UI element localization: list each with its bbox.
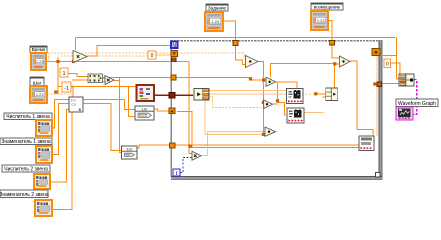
svg-text:1.23: 1.23 (317, 18, 325, 23)
svg-text:1.23: 1.23 (211, 19, 219, 24)
svg-text:Co: Co (71, 103, 76, 107)
svg-text:возмущение: возмущение (314, 5, 341, 10)
svg-text:1.23: 1.23 (36, 92, 44, 97)
svg-text:N: N (172, 43, 176, 49)
svg-text:x: x (79, 107, 82, 112)
svg-text:0: 0 (151, 53, 154, 59)
svg-text:Знаменатель 1 звена: Знаменатель 1 звена (1, 139, 51, 145)
svg-text:Знаменатель 2 звена: Знаменатель 2 звена (0, 192, 49, 198)
svg-text:1hr: 1hr (126, 146, 132, 151)
svg-text:Числитель 2 звена: Числитель 2 звена (4, 167, 48, 173)
svg-text:Waveform Graph: Waveform Graph (398, 101, 436, 107)
svg-text:0: 0 (386, 62, 389, 68)
svg-text:-1: -1 (64, 86, 69, 92)
svg-text:1.23: 1.23 (36, 59, 44, 64)
svg-text:1hr: 1hr (142, 106, 148, 111)
svg-text:Числитель 1 звена: Числитель 1 звена (6, 114, 50, 120)
svg-text:Задание: Задание (208, 6, 227, 11)
svg-text:1: 1 (62, 71, 65, 77)
svg-text:Время: Время (32, 47, 46, 52)
